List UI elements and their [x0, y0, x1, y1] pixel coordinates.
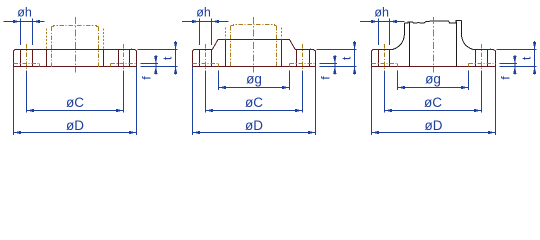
dimension øC extension lines [385, 71, 482, 113]
flange 3 plate outline (maroon, open at neck) [372, 50, 496, 67]
dimension f extension line [141, 63, 158, 65]
svg-text:t: t [160, 56, 174, 60]
svg-text:t: t [339, 56, 353, 60]
svg-text:øC: øC [66, 95, 84, 110]
dimension øD extension lines [372, 67, 496, 135]
dimension t line and arrows [174, 41, 177, 75]
flange 2 bolt hole centerline left [205, 44, 207, 70]
dimension øC extension lines [27, 71, 124, 113]
flange 2 phantom pipe outer walls (olive dashed) [226, 28, 282, 40]
dimension øD extension lines [193, 67, 316, 135]
flange 3 neck outer wall right (black curve) [461, 21, 473, 50]
dimension øD extension lines [14, 67, 137, 135]
dimension f line and arrows [513, 55, 516, 75]
dimension øC line and arrows [385, 109, 482, 112]
flange 3 vertical center line [433, 17, 435, 72]
dimension t extension lines [490, 49, 537, 67]
dimension f line and arrows [333, 55, 336, 75]
dimension t line and arrows [533, 41, 536, 75]
svg-text:øC: øC [424, 95, 442, 110]
flange 1 phantom pipe end line (olive dash-dot with jogs) [52, 26, 99, 27]
flange 3 bolt hole right edges [476, 50, 488, 67]
dimension øg line and arrows [219, 86, 290, 89]
dimension øh extension lines [200, 19, 212, 45]
svg-text:øg: øg [425, 72, 441, 87]
dimension øD line and arrows [14, 131, 137, 134]
dimension øD line and arrows [193, 131, 316, 134]
technical drawing: three flange cross-sections with dimensions [0, 0, 540, 145]
flange 2 gasket face line left (olive) [193, 64, 219, 67]
dimension øh line and arrows [3, 20, 44, 23]
flange 1 bolt hole centerline left [26, 44, 28, 70]
flange 2 phantom pipe end line (olive dash-dot with jogs) [231, 25, 277, 26]
dimension f line and arrows [154, 55, 157, 75]
svg-text:f: f [499, 76, 513, 80]
flange 1 gasket face line right (olive) [111, 64, 137, 67]
flange 1 bolt hole right edges [119, 50, 130, 67]
flange 2 (hubbed flange) group [182, 6, 356, 135]
dimension øg extension lines [219, 71, 290, 91]
svg-text:øh: øh [374, 6, 389, 20]
dimension øC line and arrows [206, 109, 303, 112]
flange 1 outline (maroon) [14, 50, 137, 67]
dimension t line and arrows [353, 41, 356, 75]
svg-text:t: t [519, 56, 533, 60]
svg-text:øD: øD [245, 118, 263, 133]
svg-text:f: f [140, 76, 154, 80]
flange 2 bolt hole left edges [200, 50, 212, 67]
dimension t extension lines [131, 49, 178, 67]
svg-text:øC: øC [245, 95, 263, 110]
flange 2 outline with hub (maroon) [193, 40, 316, 67]
flange 1 phantom pipe inner walls (olive dash-dot) [52, 27, 99, 68]
dimension øh line and arrows [182, 20, 228, 23]
flange 3 (welding neck flange) group [360, 6, 537, 135]
flange 3 pipe break line (black, irregular) [405, 20, 462, 23]
flange 1 bolt hole left edges [21, 50, 33, 67]
dimension øD line and arrows [372, 131, 496, 134]
dimension øC line and arrows [27, 109, 124, 112]
dimension øg line and arrows [398, 86, 469, 89]
flange 2 bolt hole centerline right [302, 44, 304, 70]
flange 2 phantom pipe inner walls (olive dash-dot) [231, 26, 277, 68]
flange 3 neck bore walls (black) [410, 22, 457, 67]
flange 1 gasket face line left (olive) [14, 64, 40, 67]
svg-text:øh: øh [17, 6, 32, 20]
dimension f extension line [500, 63, 517, 65]
svg-text:f: f [319, 76, 333, 80]
dimension øh line and arrows [360, 20, 405, 23]
flange 2 bolt hole right edges [297, 50, 310, 67]
flange 3 gasket face line right (olive) [469, 64, 496, 67]
dimension øh extension lines [21, 19, 33, 45]
flange 3 bolt hole left edges [379, 50, 390, 67]
flange 3 neck outer wall left (black curve) [393, 23, 405, 49]
dimension øg extension lines [398, 71, 469, 91]
svg-text:øD: øD [66, 118, 84, 133]
flange 3 bolt hole centerline right [481, 44, 483, 70]
dimension t extension lines [310, 49, 357, 67]
flange 1 bore lines [47, 50, 104, 67]
flange 3 bolt hole centerline left [384, 44, 386, 70]
dimension øh extension lines [379, 19, 390, 45]
svg-text:øD: øD [425, 118, 443, 133]
dimension f extension line [320, 63, 337, 65]
svg-text:øg: øg [246, 72, 262, 87]
flange 2 vertical center line [253, 17, 255, 72]
flange 1 phantom pipe outer walls (olive dashed) [47, 28, 104, 49]
dimension øC extension lines [206, 71, 303, 113]
flange 3 gasket face line left (olive) [372, 64, 398, 67]
flange 2 bore lines [226, 40, 282, 67]
flange 1 vertical center line [75, 17, 77, 72]
svg-text:øh: øh [196, 6, 211, 20]
flange 1 bolt hole centerline right [123, 44, 125, 70]
flange 1 (plate flange) group [3, 6, 177, 135]
flange 2 gasket face line right (olive) [290, 64, 316, 67]
